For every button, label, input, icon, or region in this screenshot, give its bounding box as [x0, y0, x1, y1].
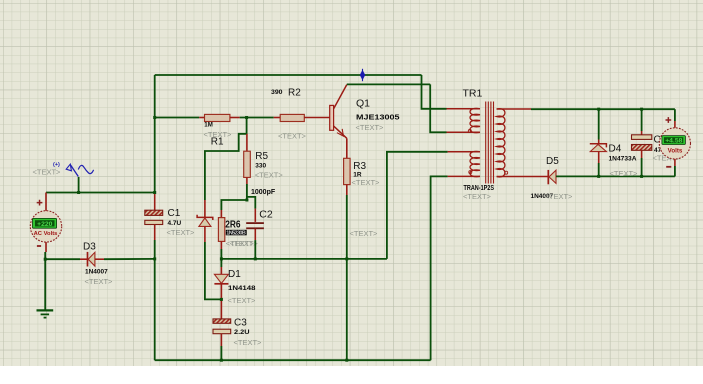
svg-text:<TEXT>: <TEXT>: [545, 192, 574, 201]
wire: R5/D2 branch from base wire: [205, 118, 247, 201]
wire: output bottom rail: [556, 175, 675, 177]
transformer TR1: [447, 102, 548, 184]
svg-text:<TEXT>: <TEXT>: [610, 169, 639, 178]
diode D5: [548, 170, 556, 184]
resistor R5 lead bottom: [246, 177, 248, 184]
resistor R6 lead bottom: [220, 241, 222, 249]
svg-text:1000pF: 1000pF: [251, 189, 276, 196]
primary W1 lead bottom: [447, 131, 481, 133]
wire: top rail down to TR1 primary1 top: [422, 75, 447, 109]
svg-text:330: 330: [255, 162, 266, 169]
DC voltmeter: [659, 117, 690, 167]
AC voltmeter lead bottom: [45, 242, 47, 252]
label C1: [167, 208, 196, 237]
wire: TR1 winding2 top to mid rail: [387, 152, 448, 259]
diode D3 lead right: [95, 258, 104, 260]
diode D1 lead bottom to C3: [220, 284, 222, 319]
zener D4: [590, 144, 607, 152]
secondary lead bottom: [497, 176, 548, 178]
svg-text:<TEXT>: <TEXT>: [167, 228, 196, 237]
capacitor C2: [246, 222, 264, 229]
zener D4 lead top: [598, 109, 600, 139]
AC voltmeter: [30, 200, 61, 246]
resistor R1 lead right: [230, 117, 240, 119]
capacitor C1 lead bottom: [154, 225, 156, 240]
resistor R2: [280, 114, 304, 121]
zener D2: [197, 215, 213, 227]
svg-text:Q1: Q1: [356, 97, 370, 109]
label Q1: [356, 97, 400, 132]
wire: mid rail y=258.9: [221, 258, 387, 260]
svg-text:R3: R3: [353, 161, 366, 172]
resistor R5 lead top: [246, 134, 248, 151]
svg-text:D1: D1: [228, 269, 241, 280]
wire: R5 bottom node: [221, 184, 247, 210]
label R2: [271, 88, 307, 141]
wire: D4 to output bottom rail: [598, 163, 600, 176]
wire: emitter down to R3: [346, 138, 348, 158]
label 2R6: [225, 218, 258, 248]
zener D2 lead bottom: [204, 226, 206, 242]
svg-text:+4.58: +4.58: [665, 138, 682, 145]
wire: DC voltmeter to output bottom rail: [674, 166, 676, 176]
svg-text:1N4007: 1N4007: [85, 269, 108, 276]
wire: C2 bottom to mid rail: [254, 240, 256, 259]
capacitor C4 lead top: [641, 109, 643, 131]
resistor R1: [205, 114, 230, 121]
capacitor C3 lead bottom: [220, 334, 222, 346]
svg-text:390: 390: [271, 89, 283, 96]
primary W2 lead top: [448, 151, 480, 153]
svg-text:TR1: TR1: [463, 88, 483, 100]
capacitor C4: [632, 135, 652, 151]
label C2: [251, 189, 276, 221]
resistor R6 (2R6): [218, 218, 224, 242]
svg-text:1M: 1M: [204, 122, 213, 129]
svg-text:D3: D3: [83, 242, 96, 253]
secondary dot: [505, 171, 508, 174]
primary W1 lead top: [447, 108, 481, 110]
diode D3 lead left: [80, 258, 87, 260]
svg-text:AC Volts: AC Volts: [34, 231, 58, 237]
capacitor C2 lead bottom: [254, 229, 256, 241]
primary W2 dot: [469, 171, 472, 174]
svg-text:<TEXT>: <TEXT>: [234, 338, 263, 347]
svg-text:<TEXT>: <TEXT>: [228, 296, 257, 305]
wire: output top corner to DC voltmeter: [674, 109, 676, 121]
svg-text:+220: +220: [37, 221, 53, 228]
svg-text:TRAN-1P2S: TRAN-1P2S: [464, 185, 495, 192]
transistor Q1: [330, 85, 347, 139]
svg-text:2.2U: 2.2U: [234, 329, 250, 336]
wire: node to C2: [247, 197, 255, 209]
svg-text:D5: D5: [546, 156, 559, 167]
label C4: [653, 135, 682, 163]
diode D1 lead top: [220, 259, 222, 267]
svg-text:C1: C1: [168, 208, 181, 219]
svg-text:C2: C2: [259, 208, 273, 220]
AC voltmeter lead top: [45, 193, 47, 212]
resistor R6 lead top: [220, 210, 222, 218]
label R5: [255, 151, 284, 180]
resistor R3: [344, 158, 351, 184]
svg-text:R2: R2: [288, 88, 301, 99]
label R1: [204, 122, 233, 148]
svg-text:1N4148: 1N4148: [228, 285, 256, 292]
svg-text:R5: R5: [255, 151, 268, 162]
svg-text:D4: D4: [609, 144, 622, 155]
DC voltmeter lead top: [674, 121, 676, 128]
wire: base wire y=117.5 left: [155, 117, 200, 119]
svg-text:4.7U: 4.7U: [168, 220, 182, 227]
wire: D3 to left rail: [104, 258, 155, 260]
wire: collector rail down to TR1 primary1 bottom: [430, 84, 446, 132]
capacitor C2 lead top: [254, 209, 256, 222]
resistor R3 lead bottom: [346, 185, 348, 195]
capacitor C1: [145, 210, 163, 224]
svg-text:<TEXT>: <TEXT>: [356, 123, 385, 132]
wire: ground drop: [44, 259, 46, 310]
svg-text:MJE13005: MJE13005: [356, 114, 400, 121]
svg-text:C3: C3: [234, 317, 247, 328]
svg-text:<TEXT>: <TEXT>: [463, 192, 492, 201]
label D5: [531, 156, 574, 201]
secondary winding: [497, 109, 505, 177]
zener D4 lead bottom: [598, 152, 600, 163]
resistor R5: [244, 151, 251, 177]
core: [485, 102, 487, 184]
svg-text:<TEXT>: <TEXT>: [350, 229, 379, 238]
label D3: [83, 242, 113, 287]
svg-text:2R6: 2R6: [225, 218, 240, 230]
resistor R2 lead left: [274, 117, 281, 119]
wire: R3 to mid rail and bottom rail: [346, 195, 348, 360]
primary W2 winding: [470, 151, 480, 176]
primary W1 dot: [468, 130, 471, 133]
diode D1: [214, 274, 228, 284]
primary W1 winding: [470, 108, 480, 132]
label C3: [234, 317, 263, 347]
diode D3: [88, 252, 95, 267]
wire: collector wire y=84.4: [347, 83, 430, 85]
wire: AC top wire y=192.5: [46, 192, 155, 194]
wire: base wire mid: [240, 117, 274, 119]
resistor R2 lead right to Q1 base: [304, 117, 329, 119]
wire: AC source drop x=78.6: [78, 177, 80, 193]
svg-text:R1: R1: [211, 136, 224, 147]
svg-text:<TEXT>: <TEXT>: [85, 277, 114, 286]
wire: TR1 winding2 bottom to bottom rail: [431, 176, 448, 360]
wire: top rail y=75: [155, 74, 422, 76]
wire: left rail lower: [154, 240, 156, 360]
wire: D2 bottom to D1/C3 node: [205, 242, 222, 299]
label R3: [352, 161, 381, 187]
svg-text:<TEXT>: <TEXT>: [33, 168, 62, 177]
svg-text:1N4733A: 1N4733A: [609, 155, 637, 162]
wire: R6 bottom to mid rail: [220, 249, 222, 259]
svg-text:<TEXT>: <TEXT>: [230, 239, 259, 248]
svg-text:<TEXT>: <TEXT>: [255, 170, 284, 179]
wire: C3 to bottom rail: [220, 346, 222, 360]
svg-text:1N5230B: 1N5230B: [226, 231, 246, 237]
label D1: [228, 269, 257, 305]
capacitor C1 lead top: [154, 192, 156, 210]
capacitor C3: [213, 319, 231, 334]
wire: bottom rail y=360.2: [155, 359, 431, 361]
secondary lead top: [497, 108, 531, 110]
label D4: [609, 144, 639, 178]
wire: D3 left: [45, 258, 80, 260]
label TR1: [463, 88, 495, 202]
wire: secondary top to output: [531, 108, 675, 110]
primary W2 lead bottom: [448, 175, 480, 177]
AC source V1 symbol: [33, 162, 94, 177]
node marker (blue) on top rail: [360, 69, 365, 81]
svg-text:<TEXT>: <TEXT>: [278, 132, 307, 141]
DC voltmeter lead bottom: [674, 159, 676, 166]
resistor R1 lead left: [199, 117, 204, 119]
capacitor C4 lead bottom: [641, 150, 643, 158]
zener D2 lead top: [204, 200, 206, 217]
svg-text:Volts: Volts: [668, 147, 683, 154]
wire: C4 to output bottom rail: [641, 158, 643, 176]
wire: voltmeter to ground node: [44, 252, 46, 259]
wire: left rail vertical x=154.7: [154, 75, 156, 192]
svg-text:<TEXT>: <TEXT>: [352, 178, 381, 187]
ground: [37, 310, 54, 317]
